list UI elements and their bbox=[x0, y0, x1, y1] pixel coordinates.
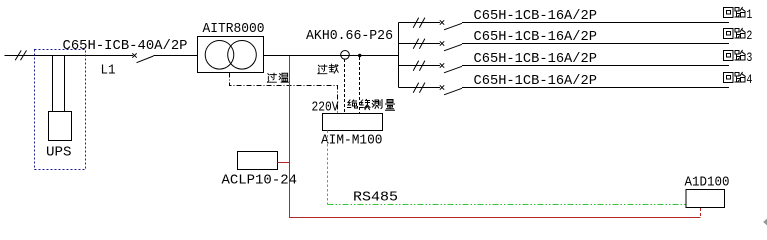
ACLP10-24 power supply box bbox=[238, 152, 278, 170]
branch 3 breaker contact x-mark bbox=[440, 63, 444, 67]
label hui-lu 2 (circuit 2) bbox=[724, 29, 734, 39]
incoming feeder double-slash mark bbox=[15, 50, 21, 60]
breaker QF1 blade bbox=[137, 56, 154, 63]
red power wire: tap down at x=289.5, along bottom, to A1D100 bbox=[290, 56, 701, 218]
branch 2 breaker blade bbox=[444, 44, 462, 51]
green RS485 bus horizontal (dash-dot) to A1D100 bbox=[328, 204, 687, 206]
signal wire: CT1 secondary (dashed) to AIM-M100 bbox=[344, 59, 346, 114]
red wire: ACLP10-24 to red riser bbox=[278, 162, 290, 164]
transformer T1 secondary winding circle bbox=[228, 41, 257, 70]
UPS dashed enclosure box bbox=[35, 50, 86, 170]
svg-text:3: 3 bbox=[746, 51, 752, 65]
svg-text:2: 2 bbox=[746, 29, 752, 43]
branch 3 breaker blade bbox=[444, 66, 462, 73]
branch 4 wire: bus to breaker bbox=[399, 87, 441, 89]
breaker QF1 contact x-mark bbox=[132, 53, 136, 57]
svg-text:C65H-ICB-40A/2P: C65H-ICB-40A/2P bbox=[63, 38, 188, 54]
label guo-wen (over-temperature) bbox=[267, 73, 276, 82]
branch 1 wire: bus to breaker bbox=[399, 22, 441, 24]
svg-text:C65H-1CB-16A/2P: C65H-1CB-16A/2P bbox=[474, 29, 598, 45]
signal wire: T1 over-temp (dash-dot) down-right-down to AIM-M100 bbox=[230, 73, 338, 114]
branch 1 outgoing wire bbox=[462, 22, 729, 24]
signal wire: voltage sense (dashed) to AIM-M100 bbox=[359, 57, 361, 114]
red dashed riser into A1D100 bottom bbox=[700, 208, 702, 218]
CT1 circle bbox=[341, 51, 350, 60]
wire: UPS tap verticals bbox=[52, 56, 54, 113]
branch 4 breaker blade bbox=[444, 88, 462, 95]
junction dot on bus wire bbox=[358, 54, 361, 57]
branch 4 breaker contact x-mark bbox=[440, 85, 444, 89]
svg-text:L1: L1 bbox=[101, 63, 116, 79]
wire: incoming mains to breaker QF1 bbox=[5, 55, 134, 57]
branch 1 breaker blade bbox=[444, 23, 462, 30]
svg-text:C65H-1CB-16A/2P: C65H-1CB-16A/2P bbox=[474, 8, 598, 24]
wire: breaker QF1 to transformer T1 bbox=[154, 55, 198, 57]
branch 4 outgoing wire bbox=[462, 87, 729, 89]
label guo-zai (overload) bbox=[318, 65, 327, 74]
branch 4 double-slash mark bbox=[413, 83, 419, 93]
label hui-lu 3 (circuit 3) bbox=[724, 51, 734, 61]
svg-text:ACLP10-24: ACLP10-24 bbox=[222, 173, 298, 189]
wire: transformer T1 to distribution bus bbox=[264, 55, 399, 57]
gray arrow artifact (bottom right) bbox=[763, 219, 767, 226]
branch 2 outgoing wire bbox=[462, 43, 729, 45]
svg-text:A1D100: A1D100 bbox=[685, 175, 730, 191]
branch 2 double-slash mark bbox=[413, 39, 419, 49]
branch 2 wire: bus to breaker bbox=[399, 43, 441, 45]
branch 3 outgoing wire bbox=[462, 65, 729, 67]
UPS body rectangle bbox=[49, 112, 72, 141]
svg-text:UPS: UPS bbox=[46, 145, 72, 161]
label hui-lu 4 (circuit 4) bbox=[724, 73, 734, 83]
branch 1 breaker contact x-mark bbox=[440, 20, 444, 24]
svg-text:C65H-1CB-16A/2P: C65H-1CB-16A/2P bbox=[474, 73, 598, 89]
transformer T1 enclosure box bbox=[198, 37, 264, 73]
A1D100 box bbox=[686, 190, 725, 208]
svg-text:RS485: RS485 bbox=[353, 190, 398, 206]
branch 1 double-slash mark bbox=[413, 18, 419, 28]
svg-text:C65H-1CB-16A/2P: C65H-1CB-16A/2P bbox=[474, 51, 598, 67]
label jue-yuan-ce-liang (insulation measurement) bbox=[348, 100, 358, 108]
svg-text:4: 4 bbox=[746, 73, 752, 87]
svg-text:AIM-M100: AIM-M100 bbox=[321, 132, 383, 148]
svg-text:AITR8000: AITR8000 bbox=[203, 21, 265, 37]
green RS485 bus vertical (dotted) from AIM-M100 bbox=[327, 131, 329, 205]
vertical distribution bus bbox=[398, 23, 400, 88]
svg-text:AKH0.66-P26: AKH0.66-P26 bbox=[306, 28, 393, 44]
AIM-M100 insulation monitor box bbox=[323, 114, 383, 131]
branch 2 breaker contact x-mark bbox=[440, 41, 444, 45]
transformer T1 primary winding circle bbox=[205, 41, 234, 70]
label hui-lu 1 (circuit 1) bbox=[724, 8, 734, 18]
svg-text:1: 1 bbox=[746, 8, 752, 22]
branch 3 double-slash mark bbox=[413, 61, 419, 71]
branch 3 wire: bus to breaker bbox=[399, 65, 441, 67]
